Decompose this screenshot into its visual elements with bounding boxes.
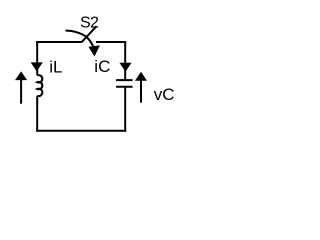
left voltage arrow (up) shaft [20,79,22,104]
switch S2 closing arc arrow [66,31,94,47]
wire right lower vertical [124,87,126,132]
svg-text:S2: S2 [80,14,99,31]
wire left lower vertical [36,96,38,132]
capacitor C top plate [116,79,133,81]
switch S2 blade [82,26,97,42]
current arrow iL (down arrowhead on left wire) [31,62,43,71]
inductor L coil [37,75,42,96]
wire left vertical [36,41,38,75]
wire top-right segment [96,41,126,43]
vC voltage arrow (up) shaft [140,80,142,103]
capacitor C bottom plate [116,86,133,88]
switch S2 arc arrowhead [88,45,100,56]
wire bottom [36,130,126,132]
vC voltage arrow (up) head [135,72,147,81]
wire top-left segment [36,41,81,43]
svg-text:iL: iL [49,58,62,77]
wire right upper vertical [124,41,126,80]
svg-text:vC: vC [154,85,175,104]
left voltage arrow (up) head [15,71,27,80]
current arrow iC (down arrowhead on right wire) [119,63,131,72]
svg-text:iC: iC [94,57,110,76]
